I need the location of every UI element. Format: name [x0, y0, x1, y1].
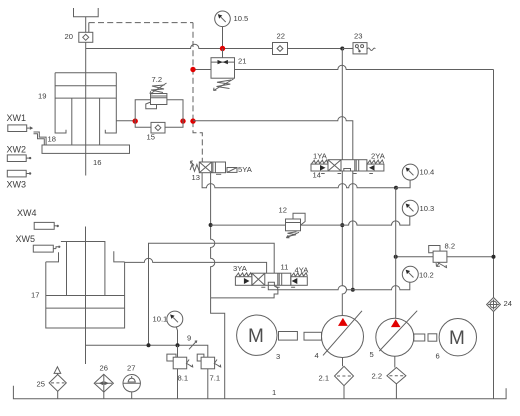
solenoid 5YA of valve 13 — [227, 168, 237, 173]
svg-text:15: 15 — [147, 133, 155, 142]
wire valve 14 right port down to tank return — [352, 171, 354, 291]
svg-text:17: 17 — [31, 291, 39, 300]
wire right bus vertical x493 — [493, 70, 495, 298]
svg-text:M: M — [248, 326, 264, 347]
valve 11 — [252, 273, 291, 285]
svg-text:22: 22 — [277, 32, 285, 41]
gauge 10.2 — [402, 266, 418, 282]
svg-text:M: M — [449, 328, 465, 349]
spring of valve 21 — [217, 80, 232, 89]
svg-text:13: 13 — [192, 173, 200, 182]
cylinder 19 — [55, 72, 116, 74]
filter 26 — [94, 374, 113, 392]
wire y48 from valve22 to valve23 — [288, 48, 354, 50]
gauge 10.1 — [167, 311, 183, 327]
svg-text:4YA: 4YA — [295, 266, 310, 275]
svg-text:26: 26 — [100, 364, 108, 373]
svg-text:10.5: 10.5 — [234, 14, 249, 23]
svg-text:24: 24 — [504, 299, 512, 308]
wire valve 14 left port down to pump 4 — [342, 171, 346, 316]
node red on dashed — [190, 118, 195, 123]
cooler 24 — [487, 298, 501, 312]
manifold line y344.8 — [86, 345, 208, 357]
coupling motor3-pump4 — [279, 332, 298, 341]
wire cylinder 17 upper port to valve 11 A — [125, 258, 267, 273]
svg-text:25: 25 — [37, 380, 45, 389]
svg-text:10.2: 10.2 — [419, 271, 434, 280]
svg-text:12: 12 — [279, 206, 287, 215]
throttle 9 — [189, 341, 197, 349]
node junction x177 — [176, 343, 180, 347]
svg-text:7.2: 7.2 — [152, 75, 163, 84]
gauge 10.5 — [215, 11, 231, 27]
solenoid 4YA — [291, 277, 308, 286]
svg-text:5YA: 5YA — [238, 165, 253, 174]
coupling pump5-motor6 — [414, 334, 425, 341]
svg-text:5: 5 — [370, 350, 374, 359]
svg-text:10.1: 10.1 — [153, 315, 168, 324]
solenoid 3YA — [235, 277, 252, 286]
wire main pressure line y48 — [86, 44, 273, 48]
svg-text:23: 23 — [354, 32, 362, 41]
piston rod of cylinder 17 — [85, 227, 87, 365]
valve 23 pressure switch — [342, 48, 353, 50]
svg-text:14: 14 — [313, 171, 321, 180]
wire pump line y290 right to gauge 10.2 — [353, 282, 410, 290]
svg-text:XW2: XW2 — [7, 145, 27, 155]
wire line y224.6 from valve13 branch to gauge 10.3 — [211, 224, 286, 226]
svg-text:10.4: 10.4 — [420, 168, 435, 177]
pilot dashed line from valve 20 to valve 13 — [88, 23, 90, 33]
wire cylinder 19 right port — [116, 120, 135, 122]
svg-text:8.2: 8.2 — [445, 242, 456, 251]
node junction x341.8 y224.6 — [340, 223, 344, 227]
wire valve21 left to dashed pilot — [193, 69, 211, 71]
relief valve 8.2 — [433, 251, 447, 262]
svg-text:27: 27 — [127, 364, 135, 373]
node junction y187.3 — [394, 186, 398, 190]
motor 6 — [439, 319, 476, 356]
svg-text:XW4: XW4 — [17, 208, 37, 218]
wire tank return from valve area down — [211, 298, 225, 399]
filter 2.1 — [335, 366, 354, 385]
wire B line from manifold riser to valve 11 — [149, 243, 275, 345]
svg-text:XW5: XW5 — [16, 234, 36, 244]
wire from node y48 down to valve 14 — [341, 49, 343, 160]
wire main vertical x85 from tank through valve 20 down through cylinder 19 — [85, 17, 87, 176]
gauge 10.4 — [396, 180, 410, 188]
svg-text:18: 18 — [48, 135, 56, 144]
svg-text:10.3: 10.3 — [420, 204, 435, 213]
node junction x148 — [147, 343, 151, 347]
svg-text:3: 3 — [276, 352, 280, 361]
valve 22 — [273, 43, 288, 55]
svg-text:2YA: 2YA — [371, 152, 386, 161]
wire pump 5 riser — [395, 188, 397, 318]
node red junction gauge 10.5 — [220, 46, 225, 51]
check valve 15 — [135, 121, 151, 127]
relief valve 7.1 — [201, 357, 215, 369]
filter 2.2 — [387, 368, 406, 384]
solenoid 2YA — [367, 164, 384, 171]
node red right — [180, 118, 185, 123]
svg-text:21: 21 — [238, 57, 246, 66]
pump 4 — [322, 316, 364, 358]
connector XW2 — [7, 155, 26, 162]
relief valve 8.1 — [173, 357, 187, 369]
wire valve 11 T port S-hop down to tank line — [211, 285, 278, 298]
ticks under valve 14 — [321, 173, 373, 175]
wire valve21 right to right bus — [235, 65, 494, 69]
connector XW3 — [7, 170, 26, 177]
svg-text:3YA: 3YA — [233, 264, 248, 273]
valve 21 — [222, 49, 224, 58]
reducing valve 12 — [286, 219, 301, 231]
tank 1 — [13, 386, 506, 399]
svg-text:8.1: 8.1 — [178, 374, 189, 383]
node junction y256.3 x493 — [492, 255, 496, 259]
wire valve 11 A port down to pump line — [268, 285, 353, 290]
wire branch top relief 7.2 — [135, 100, 150, 121]
node red left — [133, 118, 138, 123]
step bracket 18 — [34, 132, 47, 145]
valve 14 — [328, 160, 367, 171]
tank symbol top — [74, 8, 99, 17]
wire valve 13 A port down — [211, 173, 215, 298]
plate 16 — [42, 145, 130, 153]
connector XW4 — [34, 222, 54, 229]
relief valve 7.2 — [151, 94, 167, 105]
node junction x352.3 y290 — [351, 288, 355, 292]
svg-text:16: 16 — [93, 158, 101, 167]
gauge 10.3 — [402, 200, 418, 216]
node junction y256.3 x395.2 — [394, 255, 398, 259]
pump 5 — [376, 318, 414, 356]
svg-text:6: 6 — [436, 352, 440, 361]
cylinder 17 — [67, 242, 105, 296]
spring of valve 13 — [190, 165, 199, 172]
breather filter 25 — [49, 375, 66, 392]
svg-text:4: 4 — [315, 351, 319, 360]
connector XW1 — [8, 125, 27, 132]
svg-text:7.1: 7.1 — [210, 374, 221, 383]
thermometer 27 — [123, 375, 140, 392]
spring of 7.2 — [151, 85, 165, 93]
svg-text:1: 1 — [272, 388, 276, 397]
node junction x210.1 y224.5 — [209, 223, 213, 227]
svg-text:20: 20 — [65, 32, 73, 41]
node red junction x192.5 y68.8 — [190, 67, 195, 72]
svg-text:2.1: 2.1 — [319, 374, 330, 383]
node junction y48 x341.8 — [340, 47, 344, 51]
svg-text:XW1: XW1 — [7, 113, 27, 123]
solenoid 1YA — [311, 164, 328, 171]
svg-text:11: 11 — [281, 263, 289, 272]
connector XW5 — [33, 245, 53, 252]
ticks under valve 11 — [261, 286, 295, 288]
valve 13 — [199, 162, 225, 173]
svg-text:19: 19 — [38, 92, 46, 101]
svg-text:9: 9 — [187, 334, 191, 343]
wire valve 13 P port down and right to pump5 riser — [202, 173, 396, 188]
wire line y256.3 pump5 riser to right bus — [396, 256, 433, 258]
motor 3 — [237, 315, 277, 355]
valve 20 — [79, 32, 93, 42]
svg-text:XW3: XW3 — [7, 180, 27, 190]
svg-text:2.2: 2.2 — [372, 372, 383, 381]
wire main line y120 to valve 14 — [193, 117, 353, 160]
svg-text:1YA: 1YA — [313, 152, 328, 161]
